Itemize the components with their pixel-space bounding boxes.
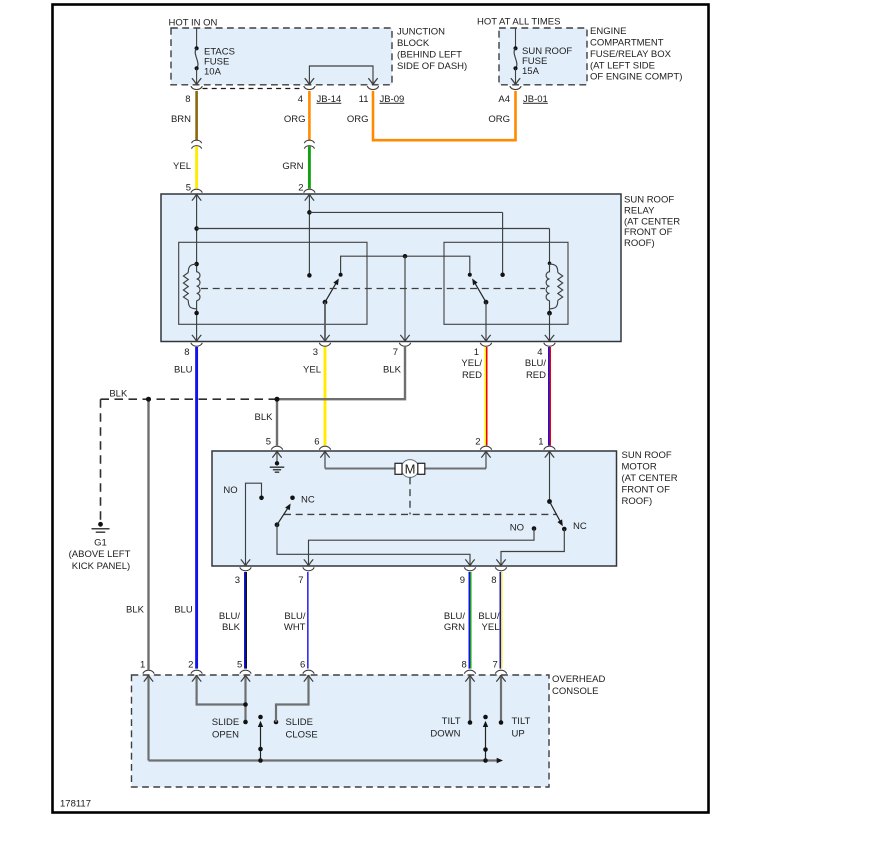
svg-text:OF ENGINE COMPT): OF ENGINE COMPT) — [590, 72, 682, 83]
svg-text:RED: RED — [526, 370, 546, 381]
svg-text:BLU/: BLU/ — [478, 611, 499, 622]
svg-text:ENGINE: ENGINE — [590, 26, 626, 37]
svg-text:BLOCK: BLOCK — [397, 38, 430, 49]
svg-text:UP: UP — [512, 728, 525, 739]
svg-text:WHT: WHT — [284, 622, 306, 633]
svg-text:SUN ROOF: SUN ROOF — [622, 450, 672, 461]
svg-text:SUN ROOF: SUN ROOF — [624, 195, 674, 206]
svg-text:1: 1 — [140, 659, 145, 670]
svg-text:(ABOVE LEFT: (ABOVE LEFT — [69, 549, 131, 560]
svg-text:5: 5 — [186, 183, 191, 194]
svg-text:RELAY: RELAY — [624, 205, 655, 216]
svg-text:HOT IN ON: HOT IN ON — [169, 18, 218, 29]
svg-text:2: 2 — [475, 436, 480, 447]
svg-text:3: 3 — [313, 347, 318, 358]
svg-text:7: 7 — [298, 575, 303, 586]
svg-text:G1: G1 — [94, 538, 107, 549]
svg-text:JUNCTION: JUNCTION — [397, 27, 445, 38]
svg-text:ORG: ORG — [347, 114, 369, 125]
svg-text:JB-01: JB-01 — [523, 94, 548, 105]
svg-text:SLIDE: SLIDE — [286, 717, 313, 728]
svg-text:BLU: BLU — [174, 605, 193, 616]
svg-text:2: 2 — [188, 659, 193, 670]
svg-text:BLU/: BLU/ — [525, 358, 546, 369]
svg-text:BRN: BRN — [171, 114, 191, 125]
svg-text:(BEHIND LEFT: (BEHIND LEFT — [397, 49, 462, 60]
svg-text:KICK PANEL): KICK PANEL) — [72, 561, 130, 572]
svg-text:FUSE/RELAY BOX: FUSE/RELAY BOX — [590, 49, 672, 60]
svg-text:OPEN: OPEN — [212, 730, 239, 741]
svg-text:ORG: ORG — [488, 114, 510, 125]
svg-text:6: 6 — [314, 436, 319, 447]
svg-text:ROOF): ROOF) — [624, 238, 655, 249]
svg-text:FRONT OF: FRONT OF — [624, 227, 673, 238]
svg-text:8: 8 — [491, 575, 496, 586]
svg-text:COMPARTMENT: COMPARTMENT — [590, 38, 664, 49]
svg-text:BLU/: BLU/ — [284, 611, 305, 622]
svg-text:2: 2 — [298, 183, 303, 194]
svg-text:7: 7 — [493, 659, 498, 670]
svg-text:10A: 10A — [204, 67, 222, 78]
svg-text:YEL: YEL — [482, 622, 500, 633]
svg-text:8: 8 — [462, 659, 467, 670]
svg-text:NC: NC — [301, 495, 315, 506]
svg-text:8: 8 — [184, 347, 189, 358]
svg-text:GRN: GRN — [444, 622, 465, 633]
svg-text:FRONT OF: FRONT OF — [622, 484, 671, 495]
svg-text:4: 4 — [298, 94, 303, 105]
svg-text:NC: NC — [573, 521, 587, 532]
svg-text:BLK: BLK — [222, 622, 241, 633]
svg-text:3: 3 — [235, 575, 240, 586]
svg-text:SLIDE: SLIDE — [212, 717, 239, 728]
svg-text:BLK: BLK — [126, 605, 145, 616]
svg-text:TILT: TILT — [512, 716, 531, 727]
svg-text:MOTOR: MOTOR — [622, 462, 657, 473]
svg-text:ORG: ORG — [284, 114, 306, 125]
svg-text:NO: NO — [223, 485, 237, 496]
svg-text:BLU/: BLU/ — [444, 611, 465, 622]
svg-text:5: 5 — [266, 436, 271, 447]
svg-text:5: 5 — [237, 659, 242, 670]
svg-text:8: 8 — [185, 94, 190, 105]
svg-text:CLOSE: CLOSE — [286, 730, 318, 741]
svg-text:CONSOLE: CONSOLE — [552, 686, 598, 697]
svg-text:(AT LEFT SIDE: (AT LEFT SIDE — [590, 60, 655, 71]
svg-text:GRN: GRN — [282, 161, 303, 172]
svg-text:15A: 15A — [522, 66, 540, 77]
svg-text:4: 4 — [537, 347, 542, 358]
svg-text:1: 1 — [538, 436, 543, 447]
svg-text:(AT CENTER: (AT CENTER — [622, 473, 678, 484]
svg-text:(AT CENTER: (AT CENTER — [624, 216, 680, 227]
svg-text:A4: A4 — [498, 94, 510, 105]
svg-text:BLK: BLK — [255, 412, 274, 423]
svg-text:NO: NO — [510, 523, 524, 534]
svg-text:YEL: YEL — [173, 161, 191, 172]
svg-text:1: 1 — [474, 347, 479, 358]
svg-text:OVERHEAD: OVERHEAD — [552, 674, 605, 685]
svg-text:TILT: TILT — [442, 716, 461, 727]
svg-text:BLK: BLK — [109, 389, 128, 400]
svg-text:DOWN: DOWN — [430, 728, 460, 739]
svg-text:JB-14: JB-14 — [317, 94, 342, 105]
svg-text:HOT AT ALL TIMES: HOT AT ALL TIMES — [477, 17, 560, 28]
svg-text:9: 9 — [460, 575, 465, 586]
svg-text:178117: 178117 — [60, 799, 91, 810]
svg-text:JB-09: JB-09 — [380, 94, 405, 105]
svg-text:SIDE OF DASH): SIDE OF DASH) — [397, 61, 467, 72]
svg-text:7: 7 — [393, 347, 398, 358]
svg-text:6: 6 — [300, 659, 305, 670]
svg-text:11: 11 — [359, 94, 369, 105]
svg-text:ROOF): ROOF) — [622, 496, 653, 507]
svg-text:BLU/: BLU/ — [219, 611, 240, 622]
svg-text:YEL: YEL — [303, 364, 321, 375]
svg-text:BLU: BLU — [174, 364, 193, 375]
svg-text:M: M — [405, 461, 416, 476]
svg-text:YEL/: YEL/ — [461, 358, 482, 369]
svg-text:RED: RED — [462, 370, 482, 381]
svg-text:BLK: BLK — [383, 364, 402, 375]
